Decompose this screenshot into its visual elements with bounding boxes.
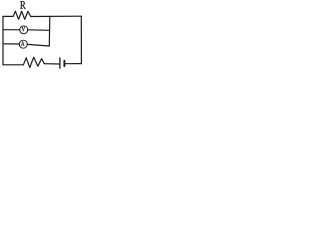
wire vertical connector: [48, 16, 51, 46]
wire battery-right segment: [65, 63, 81, 65]
label R: [20, 1, 26, 8]
battery cell: long plate: [59, 58, 61, 68]
ammeter A: [19, 40, 27, 48]
wire right rail: [80, 16, 82, 63]
wire A-branch left: [3, 43, 19, 45]
wire left rail: [2, 16, 4, 65]
wire V-branch right: [28, 29, 50, 32]
resistor (bottom rheostat): [23, 57, 44, 67]
battery cell: short plate: [63, 61, 65, 66]
wire battery-left segment: [44, 63, 59, 65]
resistor R (top): [13, 11, 31, 19]
wire top-right segment: [31, 15, 82, 17]
wire V-branch left: [3, 29, 20, 31]
wire bottom-left segment: [3, 64, 23, 66]
wire A-branch right: [27, 44, 49, 46]
voltmeter V: [20, 26, 28, 34]
wire top-left segment: [3, 15, 13, 17]
